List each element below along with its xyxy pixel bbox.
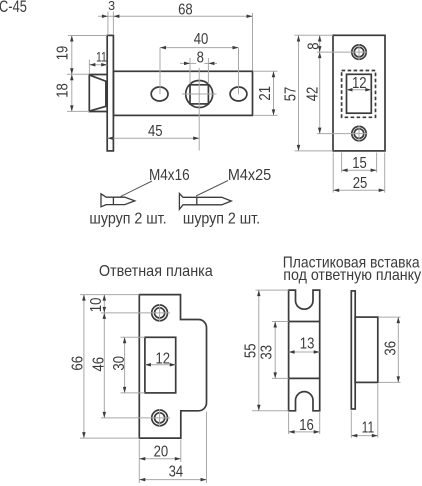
svg-text:42: 42: [304, 87, 321, 102]
svg-text:С-45: С-45: [0, 0, 27, 17]
svg-text:66: 66: [69, 356, 86, 371]
ext 33 top: [272, 321, 289, 323]
leader M4x16: [121, 181, 153, 197]
ext 36 top: [379, 316, 401, 318]
arrows 15: [342, 168, 348, 172]
dim line 45: [107, 137, 199, 139]
dim line 16: [289, 431, 320, 433]
dim line 30: [124, 337, 126, 393]
arrows 10: [103, 295, 107, 301]
centerline square vertical: [198, 68, 200, 151]
svg-text:8: 8: [306, 42, 323, 49]
dim line 15: [342, 169, 377, 171]
arrows 46: [103, 313, 107, 319]
svg-text:33: 33: [258, 345, 275, 360]
latch body: [113, 71, 252, 115]
svg-text:10: 10: [88, 298, 105, 313]
svg-text:16: 16: [299, 417, 314, 434]
svg-text:8: 8: [197, 49, 204, 66]
dim line 33: [274, 322, 276, 379]
strike cutout rect: [145, 337, 176, 393]
ext insert bottom: [252, 410, 289, 412]
dim line 57: [298, 36, 300, 151]
strike bottom screw hole: [152, 410, 168, 426]
svg-text:20: 20: [154, 443, 169, 460]
arrows 19: [70, 36, 74, 42]
centerline right oval: [238, 48, 240, 95]
ext lines 20: [138, 440, 140, 484]
ext lines 25: [332, 153, 334, 193]
svg-text:19: 19: [54, 46, 71, 61]
ext plate bottom: [295, 150, 334, 152]
ext lines 8: [189, 58, 191, 84]
svg-text:46: 46: [90, 357, 107, 372]
svg-text:шуруп 2 шт.: шуруп 2 шт.: [183, 211, 260, 228]
svg-text:шуруп 2 шт.: шуруп 2 шт.: [89, 211, 166, 228]
dim line 40: [160, 47, 239, 49]
ext 33 bottom: [272, 377, 289, 379]
svg-text:3: 3: [108, 0, 115, 13]
right oval hole: [230, 87, 247, 101]
insert section line top: [289, 321, 320, 323]
svg-text:15: 15: [352, 155, 367, 172]
dim line 12: [347, 89, 372, 91]
ext line 11: [88, 60, 90, 75]
dashed latch body outline: [342, 71, 376, 118]
insert side thin plate: [351, 291, 355, 409]
arrows 30: [123, 337, 127, 343]
arrows 40: [160, 46, 166, 50]
arrows 21: [272, 71, 276, 77]
svg-text:11: 11: [362, 418, 375, 436]
arrows 33: [273, 322, 277, 328]
ext 36 bottom: [379, 381, 401, 383]
svg-text:18: 18: [54, 83, 71, 98]
svg-text:30: 30: [111, 356, 128, 371]
svg-text:M4x16: M4x16: [149, 167, 190, 184]
arrows 66: [82, 295, 86, 301]
arrow 68 right: [247, 15, 253, 18]
top screw crosshair: [317, 51, 368, 53]
arrows 11 insert: [351, 434, 357, 438]
arrows 3: [102, 15, 108, 18]
screw M4x25: [179, 194, 231, 210]
arrows 57: [297, 36, 301, 42]
insert front outline: [289, 290, 320, 411]
svg-text:57: 57: [282, 87, 299, 102]
dim line 11 insert: [351, 435, 378, 437]
svg-text:36: 36: [382, 341, 399, 356]
ext lines 16: [288, 412, 290, 434]
strike top screw hole: [152, 305, 168, 321]
dim line 20: [139, 458, 181, 460]
insert section line bottom: [289, 377, 320, 379]
ext line bolt top: [67, 73, 89, 75]
latch bolt: [89, 75, 107, 112]
ext lines 21: [254, 70, 278, 72]
dim line 12 strike: [145, 364, 176, 366]
svg-text:M4x25: M4x25: [228, 167, 271, 185]
dim line 13: [289, 351, 320, 353]
ext lines 15: [341, 153, 343, 173]
ext line 34 right: [206, 412, 208, 484]
spindle circle: [186, 81, 213, 108]
bottom screw crosshair: [317, 133, 368, 135]
svg-text:11: 11: [96, 49, 107, 65]
ext insert top: [256, 289, 289, 291]
svg-text:12: 12: [352, 75, 367, 92]
svg-text:40: 40: [194, 31, 209, 48]
centerline square horizontal: [182, 93, 217, 95]
arrows 36: [397, 317, 401, 323]
dim line 66: [83, 295, 85, 439]
dim line 21: [273, 71, 275, 115]
ext plate top: [295, 34, 334, 36]
arrows 45: [107, 136, 113, 140]
bottom screw hole: [352, 126, 366, 140]
ext line 68 right: [252, 13, 254, 71]
dim line 19-18: [71, 36, 73, 112]
svg-text:13: 13: [300, 336, 315, 353]
insert side block: [355, 317, 378, 382]
ext strike top: [80, 294, 139, 296]
arrows 13: [289, 350, 295, 354]
dim line 8: [180, 62, 196, 64]
ext strike bottom: [80, 437, 139, 439]
strike bottom screw crosshair: [101, 417, 170, 419]
arrows 8: [184, 62, 190, 66]
latch faceplate side bar: [107, 35, 113, 150]
dim line 8-42: [319, 36, 321, 134]
dim line 36: [397, 317, 399, 382]
centerline left oval: [159, 48, 161, 95]
dim line 10-46: [103, 295, 105, 418]
ext lines for 3: [107, 12, 109, 36]
arrows 8 vertical: [318, 36, 322, 42]
spindle square hole: [190, 85, 208, 104]
ext lines 11 insert: [350, 411, 352, 438]
screw M4x16: [101, 194, 135, 207]
arrows 18: [70, 74, 74, 80]
arrows 11: [89, 63, 95, 66]
svg-text:34: 34: [169, 463, 184, 480]
dim line 11: [89, 64, 107, 66]
svg-text:12: 12: [156, 350, 171, 367]
dim line 55: [258, 290, 260, 411]
arrows 12: [347, 88, 353, 92]
arrows 42: [318, 52, 322, 58]
arrows 25: [333, 189, 339, 193]
ext cutout top: [121, 336, 145, 338]
arrows 16: [289, 430, 295, 434]
dim line 34: [139, 479, 206, 481]
dim line 3 and 68: [98, 15, 253, 17]
ext cutout bottom: [121, 392, 145, 394]
faceplate front outline: [333, 35, 385, 151]
svg-text:Ответная планка: Ответная планка: [99, 262, 213, 280]
svg-text:68: 68: [178, 1, 193, 18]
bolt opening rect: [347, 74, 372, 113]
ext line top: [68, 35, 107, 37]
strike top screw crosshair: [101, 312, 170, 314]
top screw hole: [352, 45, 366, 59]
arrows 55: [257, 290, 261, 296]
ext line bolt bottom: [67, 110, 89, 112]
leader M4x25: [196, 181, 228, 197]
arrows 12 strike: [145, 363, 151, 367]
svg-text:25: 25: [353, 175, 368, 192]
arrows 34: [139, 478, 145, 482]
strike plate outline: [139, 295, 206, 439]
svg-text:45: 45: [148, 123, 163, 140]
svg-text:под ответную планку: под ответную планку: [283, 266, 421, 284]
dim line 25: [333, 189, 385, 191]
left oval hole: [151, 87, 168, 101]
svg-text:21: 21: [257, 86, 274, 101]
arrows 20: [139, 457, 145, 461]
